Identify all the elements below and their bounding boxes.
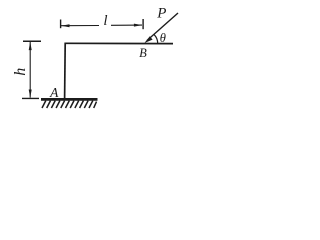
- dimension l: line right segment: [111, 24, 142, 26]
- svg-text:B: B: [139, 46, 147, 60]
- dimension h: bottom tick: [22, 97, 39, 99]
- column (vertical member from corner down to A): [64, 43, 67, 99]
- dimension l: left arrowhead: [61, 24, 69, 27]
- svg-text:P: P: [156, 5, 166, 21]
- ground line at A: [41, 98, 98, 101]
- svg-text:l: l: [103, 13, 107, 29]
- svg-text:θ: θ: [160, 31, 166, 45]
- dimension l: right arrowhead: [134, 24, 142, 27]
- dimension h: top tick: [23, 40, 41, 42]
- force P arrowhead (tip at B): [144, 36, 152, 43]
- dimension l: line left segment: [61, 25, 99, 27]
- beam AB (horizontal member, extended right of B as angle reference): [65, 42, 174, 44]
- dimension l: left extension tick: [60, 20, 62, 29]
- force P shaft: [147, 13, 178, 41]
- angle arc theta: [154, 35, 157, 44]
- ground hatching: [42, 101, 97, 108]
- dimension l: right extension tick: [142, 19, 144, 29]
- dimension h: down arrowhead: [29, 90, 32, 98]
- dimension h: vertical line: [29, 42, 31, 98]
- dimension h: up arrowhead: [29, 42, 32, 50]
- svg-text:A: A: [49, 85, 59, 100]
- svg-text:h: h: [12, 68, 29, 76]
